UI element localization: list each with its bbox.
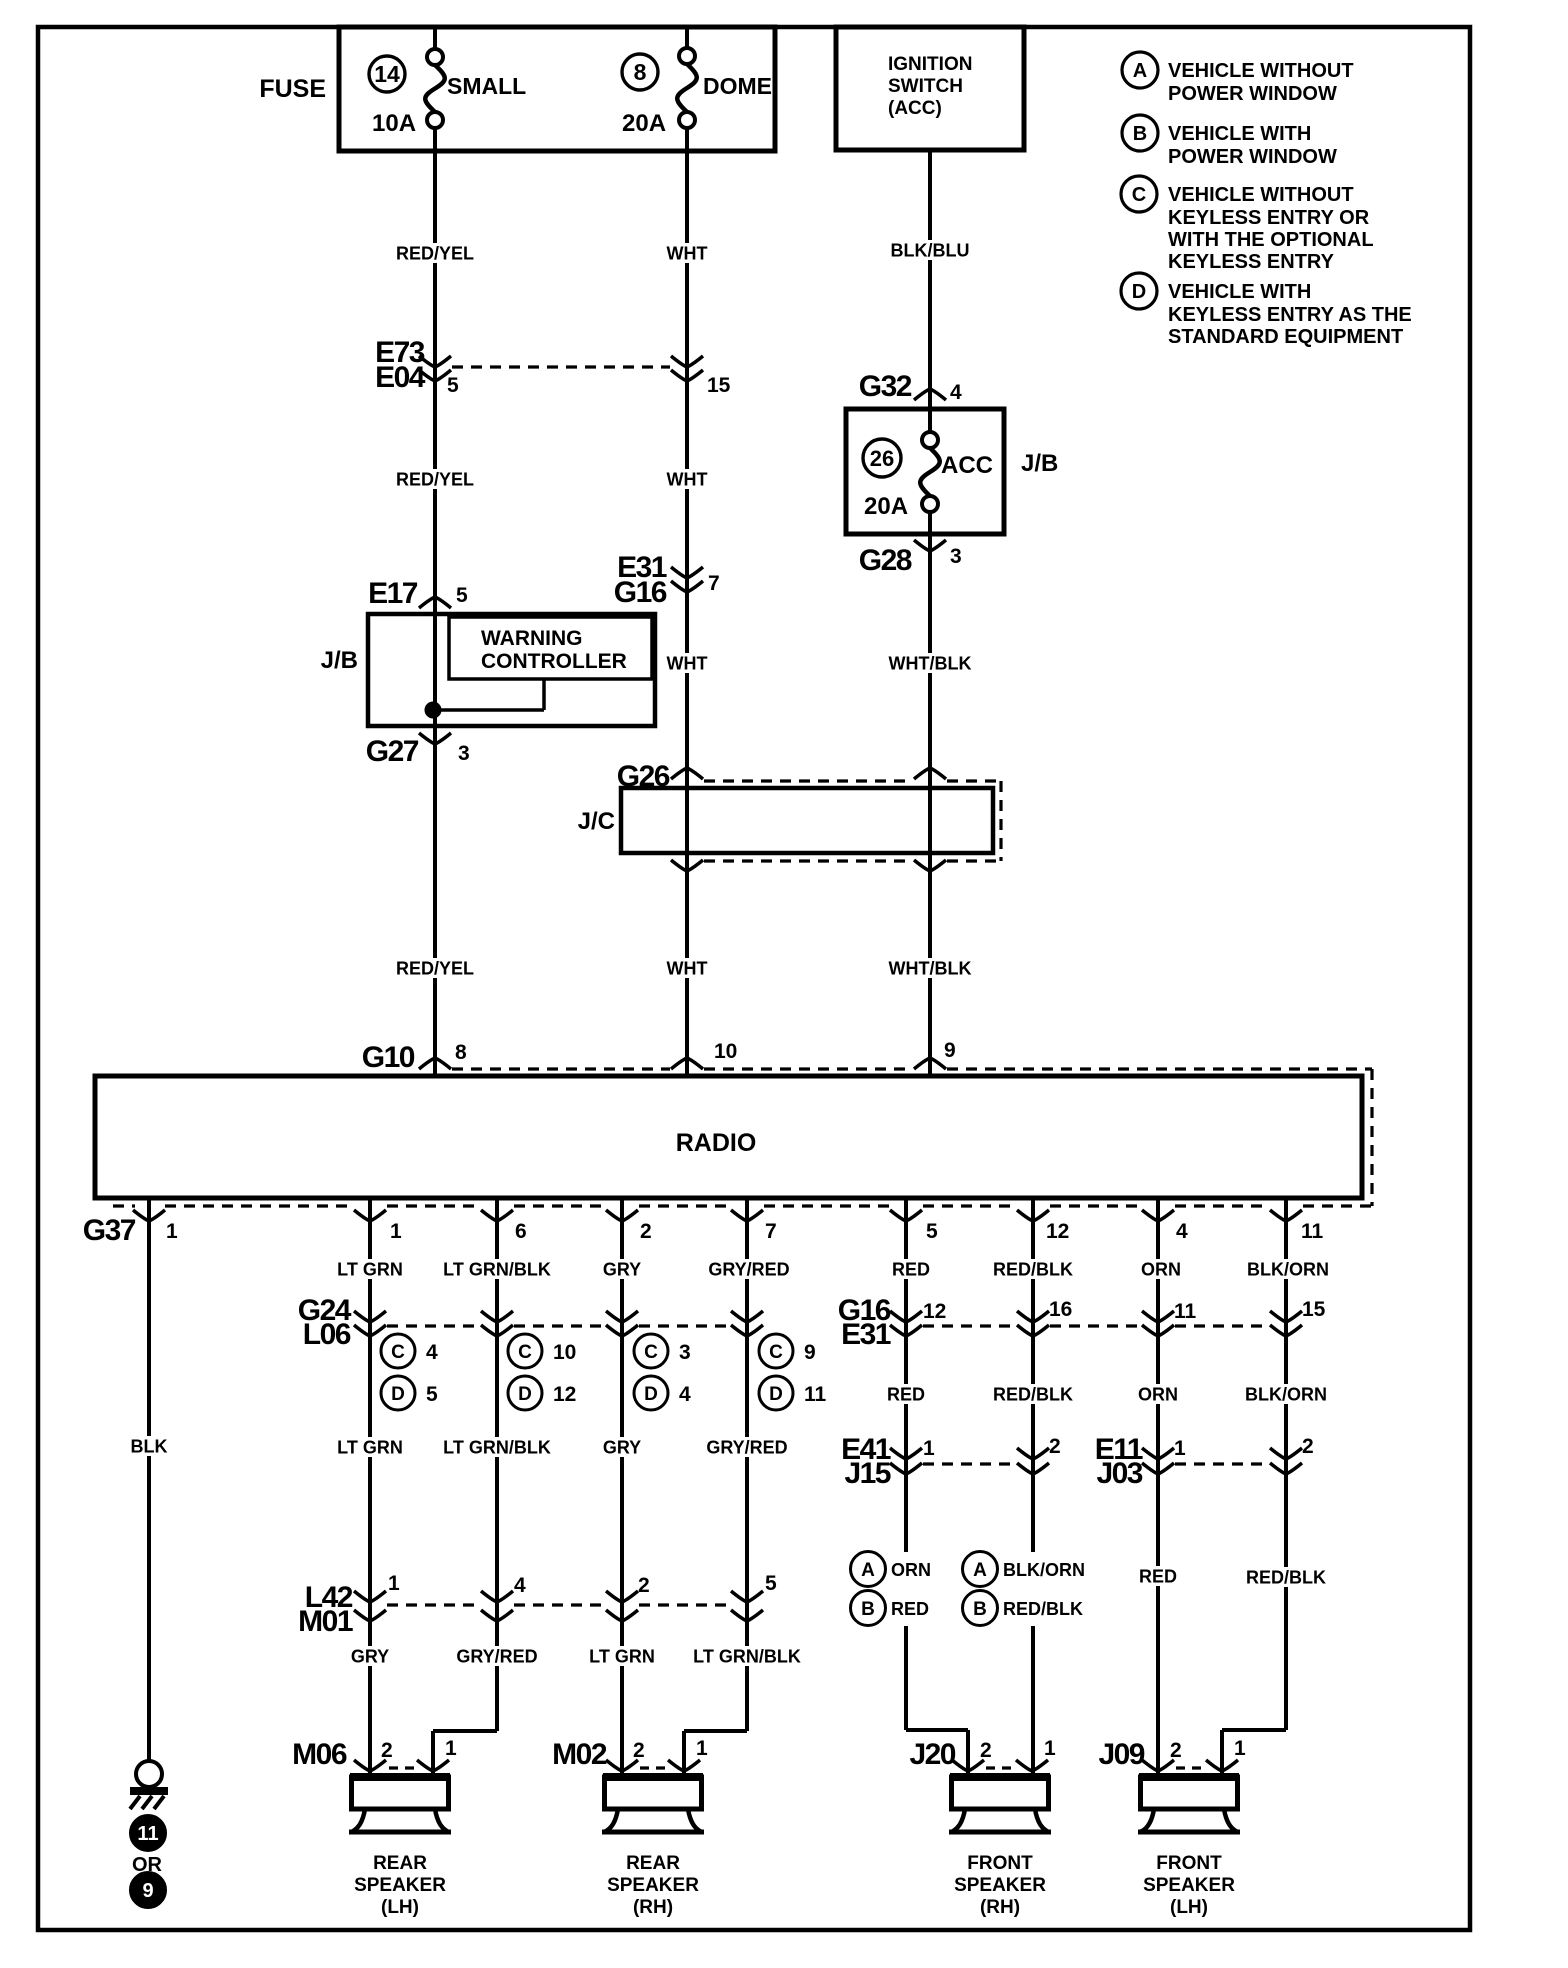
wire label RED/YEL (395, 469, 475, 489)
rear speaker LH (349, 1777, 451, 1918)
option pin codes C/D for LT GRN/BLK (508, 1334, 576, 1410)
svg-text:BLK/ORN: BLK/ORN (1247, 1259, 1329, 1279)
svg-text:14: 14 (374, 61, 400, 87)
connector G27 pin 3 (366, 733, 470, 768)
svg-text:KEYLESS ENTRY OR: KEYLESS ENTRY OR (1168, 207, 1370, 229)
svg-text:FUSE: FUSE (259, 75, 326, 103)
connector G32 pin 4 (859, 370, 962, 404)
svg-text:J20: J20 (909, 1738, 955, 1771)
fuse box (junction block) (339, 27, 775, 151)
svg-text:ORN: ORN (891, 1560, 931, 1580)
svg-text:(ACC): (ACC) (888, 98, 942, 119)
svg-text:J15: J15 (844, 1457, 890, 1490)
svg-text:B: B (973, 1599, 987, 1620)
svg-text:LT GRN/BLK: LT GRN/BLK (443, 1437, 551, 1457)
svg-text:3: 3 (679, 1341, 691, 1364)
svg-text:9: 9 (944, 1039, 956, 1062)
wire label BLK/BLU (890, 240, 970, 260)
wire label BLK (128, 1436, 169, 1456)
junction connector J/C box (621, 788, 993, 853)
ground symbol (130, 1787, 168, 1809)
dashed connector outline G10/G37 around radio (113, 1069, 1372, 1206)
svg-text:D: D (518, 1384, 532, 1405)
svg-text:1: 1 (445, 1737, 457, 1760)
connector E73/E04 pin 15 (WHT side) (671, 356, 731, 397)
svg-text:RED: RED (887, 1384, 925, 1404)
svg-text:RADIO: RADIO (676, 1129, 757, 1157)
connector E17 pin 5 into J/B (368, 577, 468, 610)
svg-text:15: 15 (707, 374, 731, 397)
svg-text:1: 1 (166, 1220, 178, 1243)
wire label LT GRN/BLK (443, 1437, 551, 1457)
wire label RED (885, 1384, 926, 1404)
wire label WHT (666, 958, 707, 978)
svg-text:M01: M01 (298, 1605, 353, 1638)
svg-text:20A: 20A (622, 110, 666, 137)
wire label WHT (666, 469, 707, 489)
svg-text:B: B (1133, 123, 1147, 145)
connector arrows bottom of J/C (671, 860, 946, 871)
svg-text:C: C (391, 1342, 405, 1363)
svg-text:9: 9 (142, 1880, 153, 1902)
svg-text:26: 26 (870, 446, 894, 471)
connector G26 (top of J/C) (617, 760, 946, 793)
svg-text:GRY/RED: GRY/RED (706, 1437, 787, 1457)
svg-text:G27: G27 (366, 735, 419, 768)
connector J09 pins 2 1 (1098, 1737, 1246, 1771)
svg-text:10: 10 (714, 1040, 737, 1063)
connector G16/E31 pins 12 16 11 15 (838, 1294, 1326, 1351)
svg-text:12: 12 (923, 1300, 946, 1323)
wire label RED/YEL (395, 243, 475, 263)
fuse F26 ACC 20A (863, 432, 993, 520)
dashed connector line G26 top (704, 779, 1001, 782)
connector M02 pins 2 1 (552, 1737, 708, 1771)
svg-text:REAR: REAR (373, 1853, 427, 1874)
svg-text:IGNITION: IGNITION (888, 54, 972, 75)
svg-text:D: D (644, 1384, 658, 1405)
front speaker LH (1138, 1777, 1240, 1918)
wire BLK/ORN radio pin11 through G16/E31, E11/J03 to front speaker LH pin 1 (1222, 1200, 1286, 1777)
connector J20 pins 2 1 (909, 1737, 1056, 1771)
svg-text:B: B (861, 1599, 875, 1620)
svg-text:3: 3 (458, 742, 470, 765)
dashed connector line E11/J03 (1175, 1462, 1269, 1465)
svg-text:RED: RED (891, 1599, 929, 1619)
svg-text:C: C (644, 1342, 658, 1363)
connector E31/G16 pin 7 (614, 551, 720, 609)
svg-text:CONTROLLER: CONTROLLER (481, 650, 627, 673)
svg-text:E31: E31 (841, 1318, 891, 1351)
wire BLK/BLU from ignition switch through G32 to fuse F26 (928, 150, 932, 433)
svg-text:GRY: GRY (603, 1437, 641, 1457)
svg-text:8: 8 (455, 1041, 467, 1064)
svg-text:SPEAKER: SPEAKER (954, 1875, 1046, 1896)
svg-text:ORN: ORN (1138, 1384, 1178, 1404)
radio box (95, 1076, 1362, 1198)
svg-text:VEHICLE WITH: VEHICLE WITH (1168, 281, 1311, 303)
svg-text:L06: L06 (303, 1318, 351, 1351)
svg-text:WHT: WHT (667, 469, 708, 489)
svg-text:8: 8 (634, 59, 647, 85)
svg-text:11: 11 (1301, 1220, 1324, 1243)
svg-text:WITH THE OPTIONAL: WITH THE OPTIONAL (1168, 229, 1374, 251)
svg-text:C: C (769, 1342, 783, 1363)
svg-text:1: 1 (1234, 1737, 1246, 1760)
svg-text:12: 12 (1046, 1220, 1069, 1243)
svg-text:LT GRN/BLK: LT GRN/BLK (443, 1259, 551, 1279)
wire ORN radio pin4 through G16/E31, E11/J03 to front speaker LH pin 2 (1156, 1200, 1160, 1777)
svg-text:2: 2 (1302, 1435, 1314, 1458)
wire GRY/RED radio pin7 through G24/L06, L42/M01 to rear speaker RH pin 1 (684, 1200, 747, 1777)
svg-text:11: 11 (804, 1383, 827, 1406)
svg-text:D: D (769, 1384, 783, 1405)
svg-text:G37: G37 (83, 1214, 136, 1247)
wire label WHT (666, 653, 707, 673)
svg-text:7: 7 (708, 572, 720, 595)
svg-text:DOME: DOME (703, 73, 772, 99)
junction block J/B box (368, 614, 655, 726)
wire label RED (1137, 1566, 1178, 1586)
legend A: vehicle without power window (1122, 52, 1354, 105)
svg-text:GRY/RED: GRY/RED (708, 1259, 789, 1279)
svg-text:G10: G10 (362, 1041, 415, 1074)
svg-text:G28: G28 (859, 544, 912, 577)
svg-text:GRY/RED: GRY/RED (456, 1646, 537, 1666)
wire label WHT/BLK (889, 653, 972, 673)
svg-text:WHT/BLK: WHT/BLK (889, 653, 972, 673)
wire GRY radio pin2 through G24/L06, L42/M01 to rear speaker RH pin 2 (620, 1200, 624, 1777)
wire RED/BLK radio pin12 through G16/E31, E41/J15 to front speaker RH pin 1 (1031, 1200, 1035, 1777)
svg-text:VEHICLE WITH: VEHICLE WITH (1168, 123, 1311, 145)
junction block J/B (ACC fuse) box (846, 409, 1004, 534)
svg-text:FRONT: FRONT (967, 1853, 1033, 1874)
svg-text:1: 1 (390, 1220, 402, 1243)
wire labels below radio (336, 1259, 1329, 1279)
svg-text:10A: 10A (372, 110, 416, 137)
label J/B (321, 647, 358, 674)
svg-text:ACC: ACC (941, 452, 993, 479)
svg-text:2: 2 (1170, 1739, 1182, 1762)
svg-text:2: 2 (381, 1739, 393, 1762)
ground code 11 (130, 1815, 167, 1852)
svg-text:(LH): (LH) (381, 1897, 419, 1918)
svg-text:J/B: J/B (1021, 450, 1058, 477)
svg-text:5: 5 (426, 1383, 438, 1406)
wire LT GRN/BLK radio pin6 through G24/L06, L42/M01 to rear speaker LH pin 1 (433, 1200, 497, 1777)
svg-text:5: 5 (447, 374, 459, 397)
svg-text:POWER WINDOW: POWER WINDOW (1168, 83, 1337, 105)
svg-text:5: 5 (926, 1220, 938, 1243)
svg-text:1: 1 (1044, 1737, 1056, 1760)
fuse F8 DOME 20A (622, 48, 772, 137)
svg-text:4: 4 (1176, 1220, 1188, 1243)
svg-text:7: 7 (765, 1220, 777, 1243)
dashed connector line E73/E04 (452, 365, 670, 368)
option pin codes C/D for LT GRN (381, 1334, 438, 1410)
wire RED radio pin5 through G16/E31, E41/J15 to front speaker RH pin 2 (906, 1200, 968, 1777)
svg-text:J/B: J/B (321, 647, 358, 674)
junction dot (425, 702, 441, 718)
wire label GRY (601, 1437, 642, 1457)
svg-text:REAR: REAR (626, 1853, 680, 1874)
svg-text:RED: RED (1139, 1566, 1177, 1586)
connector M06 pins 2 1 (292, 1737, 457, 1771)
svg-text:RED/BLK: RED/BLK (1003, 1599, 1083, 1619)
fuse F14 SMALL 10A (369, 49, 526, 137)
svg-text:2: 2 (1049, 1435, 1061, 1458)
connector G37 pin 1 (83, 1210, 178, 1247)
wire label BLK/ORN (1245, 1384, 1327, 1404)
svg-text:2: 2 (633, 1739, 645, 1762)
wire RED/YEL from fuse F14 through E73/E04, E17, J/B, G27 to radio G10 pin 8 (433, 152, 437, 1076)
svg-text:9: 9 (804, 1341, 816, 1364)
wire stub fuse F8 (685, 27, 689, 152)
svg-text:11: 11 (1174, 1300, 1197, 1323)
svg-text:RED/BLK: RED/BLK (993, 1384, 1073, 1404)
rear speaker RH (602, 1777, 704, 1918)
svg-text:E17: E17 (368, 577, 418, 610)
svg-text:KEYLESS ENTRY AS THE: KEYLESS ENTRY AS THE (1168, 304, 1412, 326)
wire label RED/BLK (993, 1384, 1073, 1404)
svg-text:1: 1 (923, 1437, 935, 1460)
dashed connector line G16/E31 (923, 1324, 1269, 1327)
svg-text:RED/BLK: RED/BLK (1246, 1567, 1326, 1587)
legend B: vehicle with power window (1122, 115, 1337, 168)
svg-text:A: A (973, 1560, 987, 1581)
svg-text:J03: J03 (1096, 1457, 1142, 1490)
svg-text:A: A (861, 1560, 875, 1581)
svg-text:2: 2 (980, 1739, 992, 1762)
svg-text:VEHICLE WITHOUT: VEHICLE WITHOUT (1168, 60, 1354, 82)
label FUSE (259, 75, 326, 103)
svg-text:G32: G32 (859, 370, 912, 403)
ground terminal circle (136, 1761, 162, 1787)
svg-text:12: 12 (553, 1383, 576, 1406)
label OR (132, 1854, 163, 1876)
wire label WHT/BLK (889, 958, 972, 978)
dashed outline right of J/C (999, 781, 1002, 861)
svg-text:1: 1 (696, 1737, 708, 1760)
front speaker RH (949, 1777, 1051, 1918)
svg-text:KEYLESS ENTRY: KEYLESS ENTRY (1168, 251, 1335, 273)
svg-text:C: C (1132, 184, 1146, 206)
svg-text:GRY: GRY (603, 1259, 641, 1279)
svg-text:4: 4 (950, 381, 962, 404)
svg-text:RED/YEL: RED/YEL (396, 469, 474, 489)
wire WHT/BLK from fuse F26 through G28 and J/C to radio G10 pin 9 (928, 512, 932, 1076)
svg-text:5: 5 (765, 1572, 777, 1595)
svg-text:SPEAKER: SPEAKER (1143, 1875, 1235, 1896)
svg-text:C: C (518, 1342, 532, 1363)
wire label LT GRN (336, 1437, 405, 1457)
svg-text:16: 16 (1049, 1298, 1072, 1321)
svg-text:D: D (391, 1384, 405, 1405)
label J/C (578, 808, 615, 835)
svg-text:GRY: GRY (351, 1646, 389, 1666)
svg-text:LT GRN: LT GRN (337, 1437, 403, 1457)
svg-text:J09: J09 (1098, 1738, 1144, 1771)
legend D: vehicle with keyless entry as the standard equipment (1121, 273, 1412, 348)
wire label GRY/RED (456, 1646, 537, 1666)
label J/B (1021, 450, 1058, 477)
radio bottom pins 1 6 2 7 5 12 4 11 (354, 1210, 1324, 1243)
wire label LT GRN (588, 1646, 657, 1666)
wire label GRY (349, 1646, 390, 1666)
svg-text:D: D (1132, 281, 1146, 303)
svg-text:SWITCH: SWITCH (888, 76, 963, 97)
svg-text:BLK: BLK (131, 1436, 168, 1456)
dashed connector line G24/L06 (387, 1324, 730, 1327)
legend C: vehicle without keyless entry or with the optional keyless entry (1121, 176, 1374, 273)
connector E11/J03 pins 1 2 (1095, 1433, 1314, 1490)
connector G10 pins 8 10 9 (362, 1039, 956, 1074)
svg-text:RED/YEL: RED/YEL (396, 958, 474, 978)
svg-text:SPEAKER: SPEAKER (354, 1875, 446, 1896)
svg-text:1: 1 (388, 1572, 400, 1595)
svg-text:E04: E04 (375, 361, 426, 394)
svg-text:WHT: WHT (667, 958, 708, 978)
wire label LT GRN/BLK (693, 1646, 801, 1666)
svg-text:SPEAKER: SPEAKER (607, 1875, 699, 1896)
wire label WHT (666, 243, 707, 263)
ignition switch (ACC) box (836, 27, 1024, 150)
svg-text:2: 2 (640, 1220, 652, 1243)
svg-text:G16: G16 (614, 576, 667, 609)
svg-text:WHT: WHT (667, 653, 708, 673)
svg-text:SMALL: SMALL (447, 73, 526, 99)
connector E73/E04 pin 5 (375, 336, 459, 397)
option pin codes C/D for GRY (634, 1334, 691, 1410)
dashed connector line E41/J15 (923, 1462, 1016, 1465)
svg-text:1: 1 (1174, 1437, 1186, 1460)
svg-text:3: 3 (950, 545, 962, 568)
svg-text:(RH): (RH) (633, 1897, 673, 1918)
svg-text:LT GRN/BLK: LT GRN/BLK (693, 1646, 801, 1666)
svg-text:20A: 20A (864, 493, 908, 520)
wire LT GRN radio pin1 through G24/L06, L42/M01 to rear speaker LH pin 2 (368, 1200, 372, 1777)
warning controller box (449, 617, 652, 679)
connector G28 pin 3 (859, 540, 962, 577)
svg-text:(LH): (LH) (1170, 1897, 1208, 1918)
svg-text:4: 4 (679, 1383, 691, 1406)
dashed connector line J/C bottom (704, 859, 1001, 862)
svg-text:WARNING: WARNING (481, 627, 583, 650)
svg-text:4: 4 (426, 1341, 438, 1364)
wire label RED/YEL (395, 958, 475, 978)
svg-text:BLK/ORN: BLK/ORN (1003, 1560, 1085, 1580)
svg-text:LT GRN: LT GRN (337, 1259, 403, 1279)
connector G24/L06 (298, 1294, 763, 1351)
wire label GRY/RED (706, 1437, 787, 1457)
svg-text:10: 10 (553, 1341, 576, 1364)
svg-text:WHT/BLK: WHT/BLK (889, 958, 972, 978)
svg-text:RED: RED (892, 1259, 930, 1279)
svg-text:4: 4 (514, 1574, 526, 1597)
svg-text:M02: M02 (552, 1738, 607, 1771)
svg-text:5: 5 (456, 584, 468, 607)
svg-text:(RH): (RH) (980, 1897, 1020, 1918)
svg-text:J/C: J/C (578, 808, 615, 835)
wire label ORN (1137, 1384, 1178, 1404)
ground code 9 (130, 1872, 167, 1909)
svg-text:RED/BLK: RED/BLK (993, 1259, 1073, 1279)
svg-text:FRONT: FRONT (1156, 1853, 1222, 1874)
wire inside J/B from warning controller (433, 679, 544, 710)
wire WHT from fuse F8 through E73/E04, E31/G16, J/C to radio G10 pin 10 (685, 152, 689, 1076)
svg-text:11: 11 (137, 1823, 158, 1845)
connector E41/J15 pins 1 2 (841, 1433, 1061, 1490)
wire BLK from G37 to ground (147, 1200, 151, 1761)
option wire codes A BLK/ORN / B RED/BLK (963, 1552, 1086, 1626)
svg-text:LT GRN: LT GRN (589, 1646, 655, 1666)
svg-text:POWER WINDOW: POWER WINDOW (1168, 146, 1337, 168)
option pin codes C/D for GRY/RED (759, 1334, 827, 1410)
connector L42/M01 pins 1 4 2 5 (298, 1572, 777, 1638)
svg-text:M06: M06 (292, 1738, 347, 1771)
svg-text:2: 2 (638, 1574, 650, 1597)
svg-text:6: 6 (515, 1220, 527, 1243)
svg-text:VEHICLE WITHOUT: VEHICLE WITHOUT (1168, 184, 1354, 206)
svg-text:RED/YEL: RED/YEL (396, 243, 474, 263)
dashed connector line L42/M01 (387, 1603, 730, 1606)
svg-text:15: 15 (1302, 1298, 1326, 1321)
svg-text:WHT: WHT (667, 243, 708, 263)
svg-text:A: A (1133, 60, 1147, 82)
option wire codes A ORN / B RED (851, 1552, 932, 1626)
svg-text:BLK/BLU: BLK/BLU (891, 240, 970, 260)
wire label RED/BLK (1246, 1567, 1326, 1587)
svg-text:BLK/ORN: BLK/ORN (1245, 1384, 1327, 1404)
svg-text:STANDARD EQUIPMENT: STANDARD EQUIPMENT (1168, 326, 1403, 348)
wire stub fuse F14 (433, 27, 437, 152)
svg-text:ORN: ORN (1141, 1259, 1181, 1279)
